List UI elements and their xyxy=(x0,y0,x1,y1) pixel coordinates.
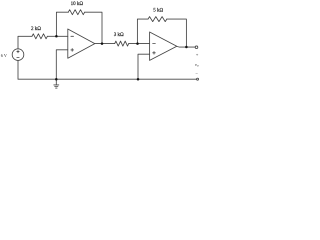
svg-text:5 kΩ: 5 kΩ xyxy=(153,9,163,14)
svg-text:6 V: 6 V xyxy=(1,53,7,58)
svg-text:10 kΩ: 10 kΩ xyxy=(71,2,84,7)
svg-text:3 kΩ: 3 kΩ xyxy=(114,33,124,38)
svg-text:vo: vo xyxy=(195,62,199,68)
svg-text:−: − xyxy=(195,71,198,76)
svg-text:+: + xyxy=(196,52,199,57)
svg-text:2 kΩ: 2 kΩ xyxy=(31,27,41,32)
